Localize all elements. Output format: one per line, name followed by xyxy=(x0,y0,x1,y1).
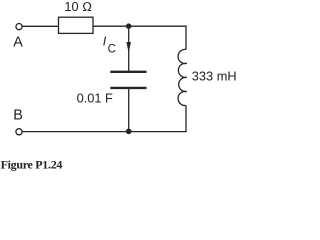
wire bottom rail xyxy=(22,131,186,133)
resistor R1 10 ohm xyxy=(59,17,94,33)
terminal B xyxy=(16,129,22,135)
capacitor C1 top plate xyxy=(110,71,146,73)
wire middle branch lower xyxy=(128,89,130,132)
svg-text:C: C xyxy=(108,43,116,55)
svg-text:I: I xyxy=(103,35,107,49)
svg-text:A: A xyxy=(13,35,23,51)
inductor L1 333 mH xyxy=(178,49,187,105)
junction dot bottom node xyxy=(126,129,132,135)
current arrow IC xyxy=(126,42,131,53)
wire resistor to top-right corner xyxy=(93,25,187,27)
wire right branch top xyxy=(185,26,187,49)
wire right branch bottom xyxy=(185,106,187,132)
junction dot top node xyxy=(126,23,132,29)
wire middle branch upper xyxy=(128,26,130,71)
svg-text:Figure P1.24: Figure P1.24 xyxy=(1,157,63,171)
svg-text:333 mH: 333 mH xyxy=(192,69,237,84)
svg-text:B: B xyxy=(13,107,23,123)
wire A to resistor xyxy=(22,25,58,27)
terminal A xyxy=(16,24,22,30)
svg-text:0.01 F: 0.01 F xyxy=(77,91,113,106)
svg-text:10 Ω: 10 Ω xyxy=(64,0,92,14)
capacitor C1 bottom plate xyxy=(110,87,146,89)
